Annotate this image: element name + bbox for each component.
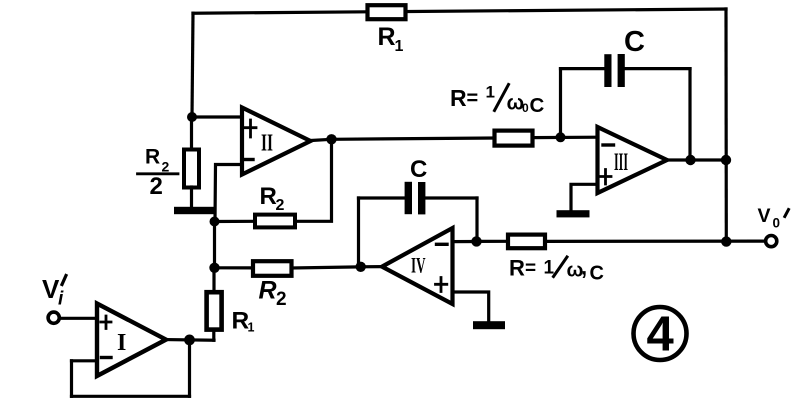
svg-text:IV: IV bbox=[411, 253, 426, 278]
wire cap C4 top right bbox=[426, 196, 478, 199]
ground U3 bbox=[557, 210, 590, 217]
pin plus U4 bbox=[436, 278, 447, 292]
wire rail node A to node H bbox=[213, 222, 216, 268]
svg-text:C: C bbox=[410, 156, 427, 183]
svg-text:C: C bbox=[624, 26, 645, 58]
pin minus U4 bbox=[437, 243, 448, 246]
wire U4 apex to node G bbox=[359, 265, 383, 268]
wire U1 feedback bottom bbox=[72, 395, 190, 398]
pin minus U3 bbox=[603, 143, 614, 146]
node E output junction bbox=[721, 236, 731, 246]
svg-text:2: 2 bbox=[276, 197, 285, 214]
pin plus U1 bbox=[101, 316, 111, 329]
resistor R input U3 bbox=[495, 131, 533, 146]
wire R2/2 bottom bbox=[190, 187, 193, 208]
wire Vo line bbox=[477, 240, 509, 243]
prime Vo bbox=[785, 210, 789, 217]
wire cap C4 right vertical bbox=[475, 198, 478, 241]
wire to op-amp II plus bbox=[192, 115, 243, 118]
svg-text:C: C bbox=[590, 263, 604, 285]
pin minus U1 bbox=[102, 356, 112, 359]
label R1 vertical bbox=[232, 308, 255, 335]
wire U3 plus to ground bbox=[571, 184, 598, 210]
wire cap C4 left vertical bbox=[357, 198, 360, 267]
svg-text:1: 1 bbox=[248, 321, 255, 335]
svg-text:2: 2 bbox=[150, 173, 163, 200]
wire R2 lower to node G bbox=[292, 267, 359, 268]
resistor R2/2 bbox=[184, 150, 199, 188]
resistor R1 vertical bbox=[207, 292, 222, 329]
svg-text:=: = bbox=[525, 258, 536, 279]
svg-text:R: R bbox=[450, 85, 467, 111]
resistor R2 lower bbox=[253, 261, 292, 276]
wire left rail bbox=[192, 13, 193, 117]
svg-text:R: R bbox=[260, 183, 277, 210]
wire resistor to Vo terminal bbox=[545, 240, 765, 243]
prime Vi bbox=[62, 276, 66, 285]
figure number 4 bbox=[634, 307, 687, 360]
wire U2 minus to node A bbox=[215, 165, 242, 222]
svg-text:I: I bbox=[117, 330, 126, 356]
svg-text:R: R bbox=[259, 277, 277, 305]
resistor R output U4 bbox=[508, 235, 545, 249]
wire cap C3 left vertical bbox=[559, 69, 562, 138]
node U3 output to rail bbox=[721, 155, 731, 165]
wire U1 output bbox=[166, 338, 214, 342]
svg-text:V: V bbox=[758, 205, 771, 227]
wire Vi to op-amp I bbox=[60, 317, 98, 320]
svg-text:1: 1 bbox=[486, 83, 495, 102]
svg-text:1: 1 bbox=[395, 38, 404, 55]
svg-text:II: II bbox=[261, 131, 273, 157]
terminal Vo bbox=[766, 236, 777, 247]
op-amp U3 bbox=[598, 127, 668, 193]
wire U4 plus to ground bbox=[453, 292, 489, 321]
pin plus U3 bbox=[600, 170, 611, 185]
wire R2/2 top bbox=[190, 117, 193, 150]
wire U4 minus to node F bbox=[453, 240, 477, 243]
slash in R=1/w0C bottom bbox=[554, 257, 568, 277]
node F bbox=[471, 236, 481, 246]
svg-text:i: i bbox=[58, 289, 64, 310]
op-amp U2 bbox=[242, 108, 311, 175]
label R2 lower bbox=[259, 277, 287, 311]
wire U3 output bbox=[667, 158, 726, 161]
svg-text:R: R bbox=[145, 146, 160, 169]
fraction bar R2/2 bbox=[138, 172, 179, 175]
wire cap C3 top left bbox=[561, 67, 606, 70]
node C3 feedback junction bbox=[685, 155, 695, 165]
svg-text:,: , bbox=[581, 255, 587, 280]
wire cap C3 top right bbox=[625, 67, 691, 70]
wire cap C3 right vertical bbox=[688, 69, 691, 160]
resistor R1 bbox=[368, 5, 406, 19]
wire node H to R2 lower bbox=[215, 266, 254, 269]
node A bbox=[210, 217, 220, 227]
svg-text:C: C bbox=[530, 94, 545, 117]
wire U2 output line bbox=[311, 138, 495, 141]
terminal Vi bbox=[48, 312, 59, 323]
svg-text:4: 4 bbox=[647, 308, 674, 362]
ground U4 bbox=[473, 321, 505, 329]
label Vi bbox=[42, 274, 64, 310]
ground R2/2 bbox=[174, 207, 216, 214]
label R2 feedback bbox=[260, 183, 285, 214]
node U2 output bbox=[326, 134, 336, 144]
svg-text:R: R bbox=[509, 256, 525, 281]
slash in R=1/w0C top bbox=[495, 85, 509, 111]
wire node A to R2 feedback bbox=[215, 220, 256, 223]
resistor R2 feedback bbox=[255, 215, 295, 228]
svg-text:R: R bbox=[378, 23, 396, 51]
wire node H to R1 vertical bbox=[212, 268, 215, 293]
label R=1/w0C top bbox=[450, 83, 545, 118]
wire R1 vertical bottom bbox=[212, 330, 215, 341]
node H bbox=[209, 263, 219, 273]
svg-text:2: 2 bbox=[276, 289, 287, 310]
node G U4 output bbox=[356, 262, 366, 272]
op-amp U4 mirrored bbox=[382, 228, 453, 304]
label R2/2 bbox=[145, 146, 170, 201]
wire resistor to U3 minus bbox=[533, 136, 599, 140]
wire U1 feedback down bbox=[188, 340, 191, 396]
svg-text:0: 0 bbox=[522, 101, 529, 115]
svg-text:III: III bbox=[614, 149, 628, 176]
node II plus input bbox=[187, 112, 197, 122]
capacitor C4 bbox=[405, 182, 426, 215]
capacitor C3 bbox=[604, 54, 625, 87]
pin minus U2 bbox=[244, 158, 254, 161]
label Vo bbox=[758, 205, 781, 231]
label R=1/w0C bottom bbox=[509, 255, 604, 285]
node I output bbox=[184, 335, 195, 346]
wire R2 feedback to U2 output bbox=[295, 139, 332, 221]
wire top feedback bbox=[193, 9, 726, 13]
svg-text:0: 0 bbox=[773, 216, 781, 231]
pin plus U2 bbox=[245, 120, 256, 137]
wire U1 feedback to minus bbox=[72, 359, 98, 362]
wire cap C4 top left bbox=[359, 196, 406, 199]
wire U1 feedback left bbox=[70, 361, 73, 397]
wire right rail bbox=[724, 9, 727, 242]
svg-text:=: = bbox=[467, 88, 479, 110]
label R1 bbox=[378, 23, 404, 55]
op-amp U1 bbox=[97, 304, 166, 377]
node B bbox=[556, 132, 566, 142]
